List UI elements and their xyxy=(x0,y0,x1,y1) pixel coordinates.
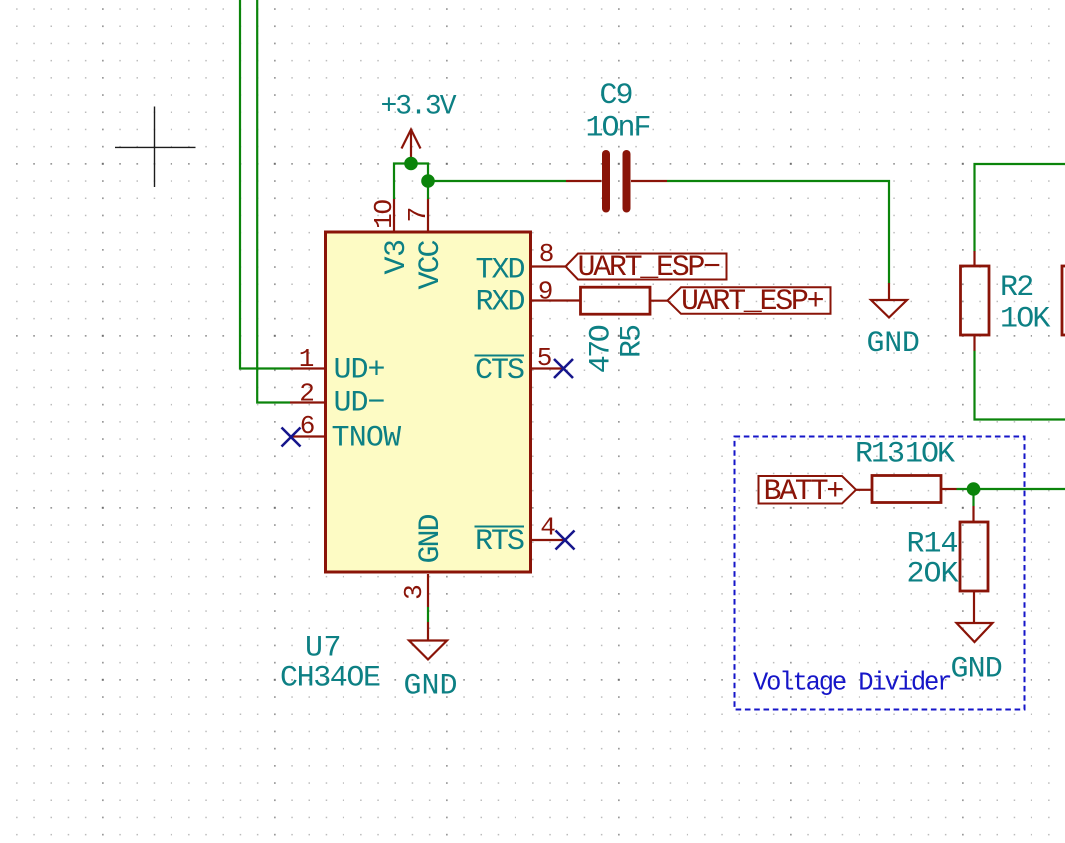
no-connect X pin 5 xyxy=(554,359,573,378)
partial resistor at right edge xyxy=(1062,266,1065,335)
no-connect X pin 6 xyxy=(282,428,301,447)
pin 9 RXD xyxy=(531,299,580,301)
junction dot divider xyxy=(967,482,981,496)
wire pin3 stub xyxy=(427,607,429,622)
svg-text:8: 8 xyxy=(539,239,555,269)
capacitor C9 plates xyxy=(606,154,627,209)
svg-text:V3: V3 xyxy=(380,239,414,274)
svg-text:47O: 47O xyxy=(585,325,619,373)
resistor R13 body xyxy=(872,476,941,503)
resistor R13 leads xyxy=(856,488,957,491)
pin 6 xyxy=(291,435,326,437)
wire +3.3V loop to pins 10 and 7 xyxy=(394,164,428,200)
svg-text:Voltage Divider: Voltage Divider xyxy=(753,669,951,698)
GND symbol right (net after C9) xyxy=(871,283,907,318)
svg-text:RTS: RTS xyxy=(475,525,524,559)
svg-text:TNOW: TNOW xyxy=(332,422,402,456)
capacitor C9 leads xyxy=(566,180,667,182)
resistor R14 top lead xyxy=(972,506,974,522)
svg-text:R14: R14 xyxy=(907,528,958,562)
voltage divider dashed box xyxy=(735,437,1025,710)
svg-text:GND: GND xyxy=(867,327,920,361)
svg-text:7: 7 xyxy=(403,207,433,223)
IC U7 CH340E body xyxy=(326,232,531,572)
svg-text:R13: R13 xyxy=(855,438,904,472)
wire junction to R14 xyxy=(972,489,974,506)
junction dot (411,163.5) xyxy=(404,157,418,171)
svg-text:+3.3V: +3.3V xyxy=(380,92,456,123)
svg-text:UD−: UD− xyxy=(334,387,385,421)
svg-text:UD+: UD+ xyxy=(334,354,385,388)
hierarchical label BATT+ xyxy=(759,475,857,509)
resistor R2 body xyxy=(961,266,990,335)
svg-text:BATT+: BATT+ xyxy=(764,475,844,509)
pin 3 xyxy=(427,574,429,607)
pin 8 TXD xyxy=(531,265,565,267)
svg-text:UART_ESP−: UART_ESP− xyxy=(578,251,721,285)
svg-text:1OK: 1OK xyxy=(905,438,955,472)
svg-text:1OnF: 1OnF xyxy=(585,112,649,146)
junction dot (428,181) xyxy=(421,174,435,188)
svg-text:3: 3 xyxy=(399,584,429,600)
svg-text:1: 1 xyxy=(299,344,315,374)
svg-text:C9: C9 xyxy=(599,79,631,113)
pin 7 xyxy=(427,199,429,231)
GND symbol under pin 3 xyxy=(409,622,447,660)
svg-text:GND: GND xyxy=(951,653,1002,687)
resistor R5 body xyxy=(581,287,651,314)
svg-text:UART_ESP+: UART_ESP+ xyxy=(681,285,824,319)
GND symbol divider xyxy=(957,591,993,642)
hierarchical label UART_ESP+ xyxy=(668,285,831,319)
wire UD+ net (vertical from top to pin 1) xyxy=(240,0,290,369)
pin 5 CTS xyxy=(531,367,565,369)
crosshair marker xyxy=(115,107,196,188)
pin 1 xyxy=(290,367,325,369)
wire VCC to C9 left xyxy=(428,180,566,182)
wire R2 top to right edge xyxy=(975,164,1065,252)
svg-text:4: 4 xyxy=(540,513,556,543)
svg-text:CTS: CTS xyxy=(475,354,524,388)
pin 10 xyxy=(393,199,395,231)
svg-text:VCC: VCC xyxy=(414,241,448,290)
svg-text:9: 9 xyxy=(538,277,554,307)
resistor R5 right lead xyxy=(650,300,668,302)
svg-text:1O: 1O xyxy=(369,200,399,229)
svg-text:6: 6 xyxy=(300,411,316,441)
svg-text:5: 5 xyxy=(537,343,553,373)
pin 2 xyxy=(290,401,325,403)
svg-text:RXD: RXD xyxy=(475,286,524,320)
svg-text:CH34OE: CH34OE xyxy=(280,662,380,696)
svg-text:TXD: TXD xyxy=(475,254,524,288)
svg-text:R5: R5 xyxy=(616,325,650,358)
svg-text:R2: R2 xyxy=(1000,271,1032,305)
IC pins (red segments) xyxy=(290,199,580,607)
svg-text:U7: U7 xyxy=(305,632,342,666)
wire C9 right to GND corner xyxy=(667,181,889,284)
power symbol +3.3V xyxy=(402,130,421,161)
wire R2 bottom to right edge xyxy=(975,351,1065,420)
pin 4 RTS xyxy=(531,539,565,541)
wire divider junction to right edge xyxy=(957,488,1065,490)
wire UD- net (vertical from top to pin 2) xyxy=(257,0,290,403)
svg-text:2OK: 2OK xyxy=(907,558,959,592)
svg-text:2: 2 xyxy=(299,379,315,409)
hierarchical label UART_ESP- xyxy=(566,251,727,285)
svg-text:1OK: 1OK xyxy=(1000,303,1050,337)
resistor R2 leads xyxy=(973,251,975,351)
resistor R14 body xyxy=(960,522,988,591)
svg-text:GND: GND xyxy=(414,515,448,564)
svg-text:GND: GND xyxy=(404,670,458,704)
no-connect X pin 4 xyxy=(556,531,575,550)
